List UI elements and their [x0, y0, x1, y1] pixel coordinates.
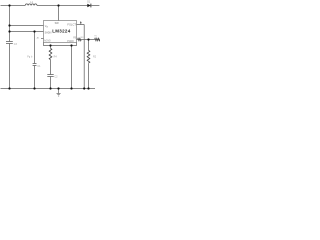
node dot top rail input: [8, 4, 10, 6]
wire VIN top rail left: [1, 5, 26, 7]
wire FB rail: [77, 39, 78, 41]
wire PGND pin down: [71, 46, 73, 89]
node dot bypass tap: [33, 30, 35, 32]
node dot gnd symbol: [57, 87, 59, 89]
wire R2 column top: [88, 40, 90, 51]
capacitor C2 compensation: [47, 75, 53, 77]
wire top rail right to VOUT edge: [91, 5, 99, 7]
node dot sub-rail R4: [49, 44, 51, 46]
wire FB rail middle: [81, 39, 94, 41]
wire VC pin down: [50, 46, 52, 49]
op-amp U1 LM3224 box: [44, 21, 77, 43]
wire ground rail: [1, 88, 96, 90]
node FSLCT arrow up: [80, 23, 82, 25]
node dot SHDN branch: [8, 30, 10, 32]
wire below bypass cap: [34, 66, 36, 89]
node dot gnd C2: [49, 87, 51, 89]
node dot gnd R2: [87, 87, 89, 89]
wire SW pin: [58, 6, 60, 21]
wire R2 column bottom: [88, 63, 90, 88]
node dot PGND pin: [70, 44, 72, 46]
svg-text:FSLCT: FSLCT: [67, 22, 76, 26]
svg-text:LM3224: LM3224: [52, 29, 71, 34]
diode D1: [87, 4, 90, 8]
node dot VIN branch: [8, 24, 10, 26]
capacitor C1 bypass: [33, 64, 37, 66]
node dot SW: [57, 4, 59, 6]
wire VIN pin branch: [10, 25, 44, 27]
wire left input column: [9, 6, 11, 42]
wire between R4 and C2: [50, 60, 52, 75]
resistor R2: [87, 50, 90, 63]
wire below C2: [50, 77, 52, 89]
svg-text:FB: FB: [73, 38, 76, 40]
wire ground sub-rail under IC: [44, 43, 77, 46]
ground: [57, 89, 61, 97]
wire SHDN pin branch: [10, 31, 44, 33]
wire bypass column: [34, 32, 36, 64]
wire top rail middle: [37, 5, 87, 7]
resistor R4 compensation: [49, 48, 52, 59]
node dot gnd sense: [83, 87, 85, 89]
wire FSLCT stub to sense column: [77, 25, 85, 89]
node dot gnd PGND: [70, 87, 72, 89]
node dot gnd left: [8, 87, 10, 89]
inductor L1: [25, 4, 37, 6]
node dot gnd bypass: [33, 87, 35, 89]
capacitor C3 input: [6, 42, 13, 44]
svg-text:PGND: PGND: [67, 41, 74, 43]
svg-text:AGND: AGND: [44, 40, 51, 43]
svg-text:SHDN: SHDN: [45, 32, 52, 35]
svg-text:SW: SW: [55, 22, 60, 25]
node AGND stub: [41, 38, 44, 40]
node dot FB junction: [87, 38, 89, 40]
wire below input cap: [9, 44, 11, 89]
resistor R1 right edge: [95, 38, 100, 40]
resistor R3: [78, 38, 82, 40]
